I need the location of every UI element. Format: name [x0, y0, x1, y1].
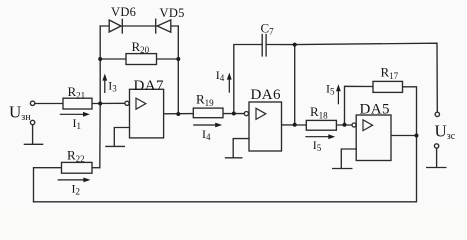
- svg-text:DA7: DA7: [134, 78, 164, 94]
- wire: left vertical x=100 from diode branch down to R22 lead: [99, 26, 101, 168]
- arrow I1: [60, 113, 86, 115]
- wire: output vertical down + bottom feedback rail: [34, 136, 417, 202]
- wire: R21 to DA7 inverting input: [92, 102, 125, 104]
- input terminal upper: [30, 101, 34, 105]
- wire: top diode branch horizontal y=26: [100, 25, 178, 27]
- ground (input): [24, 143, 42, 145]
- wire: R18 to DA5 inverting input: [336, 124, 352, 126]
- node: DA5 summing junction: [343, 123, 347, 127]
- capacitor C7: [262, 35, 266, 56]
- input terminal lower: [30, 120, 34, 124]
- wire: R17 right leg to DA5 output vertical: [403, 87, 417, 136]
- ground (DA5): [333, 168, 352, 170]
- node: DA7 summing junction: [98, 102, 102, 106]
- resistor R18: [306, 120, 336, 130]
- arrow I5 horizontal: [305, 136, 331, 138]
- resistor R22: [62, 162, 93, 173]
- diode VD6: [109, 19, 122, 33]
- arrow I2: [58, 179, 86, 181]
- wire: output lower terminal to ground: [436, 148, 438, 167]
- svg-text:VD6: VD6: [111, 5, 136, 19]
- op-amp DA5: [341, 115, 391, 168]
- wire: C7 left vertical: [234, 45, 262, 114]
- node: DA7 output junction: [176, 112, 180, 116]
- arrow I4 vertical: [228, 77, 230, 93]
- wire: R22 right lead up to summing node: [92, 167, 100, 169]
- output terminal upper: [435, 112, 439, 116]
- ground (DA6): [226, 157, 242, 159]
- wire: input to R21: [35, 103, 63, 105]
- node: DA6 output junction: [293, 123, 297, 127]
- resistor R17: [373, 81, 403, 92]
- node: R20 left junction: [98, 57, 102, 61]
- wire: C7 right to junction and top feedback to output: [266, 43, 437, 112]
- arrow I4 horizontal: [193, 124, 218, 126]
- op-amp DA6: [233, 102, 281, 158]
- wire: right vertical x=178.3 from diode branch to DA7 output: [177, 26, 179, 114]
- wire: R19 to DA6 inverting input: [223, 113, 245, 115]
- output terminal lower: [434, 144, 438, 148]
- op-amp DA7: [114, 89, 163, 146]
- current arrows: [58, 73, 341, 183]
- wire: DA6 output to R18: [282, 124, 307, 126]
- resistor R21: [63, 98, 92, 109]
- svg-text:DA5: DA5: [360, 101, 390, 117]
- arrow I3: [104, 78, 106, 93]
- svg-text:VD5: VD5: [160, 6, 185, 20]
- resistor R19: [193, 108, 223, 118]
- wire: DA6 output vertical to C7 net: [294, 45, 296, 125]
- wire: R20 horizontal y=59: [100, 58, 126, 60]
- diode VD5: [156, 19, 171, 33]
- ground (DA7): [106, 145, 124, 147]
- svg-text:DA6: DA6: [251, 87, 281, 103]
- node: DA5 output junction: [415, 134, 419, 138]
- wire: DA7 output to R19: [164, 113, 194, 115]
- node: R20 right junction: [176, 57, 180, 61]
- wire: R22 left lead: [34, 168, 62, 202]
- wire: input lower terminal to ground: [32, 125, 34, 145]
- ground (output): [427, 167, 446, 169]
- wire: R17 left leg vertical: [345, 86, 374, 125]
- node: C7 left junction: [232, 112, 236, 116]
- resistor R20: [126, 54, 157, 65]
- node: top feedback junction: [293, 43, 297, 47]
- wire: [157, 58, 179, 60]
- arrow I5 vertical: [337, 89, 339, 105]
- wire: DA5 output to junction: [391, 135, 417, 137]
